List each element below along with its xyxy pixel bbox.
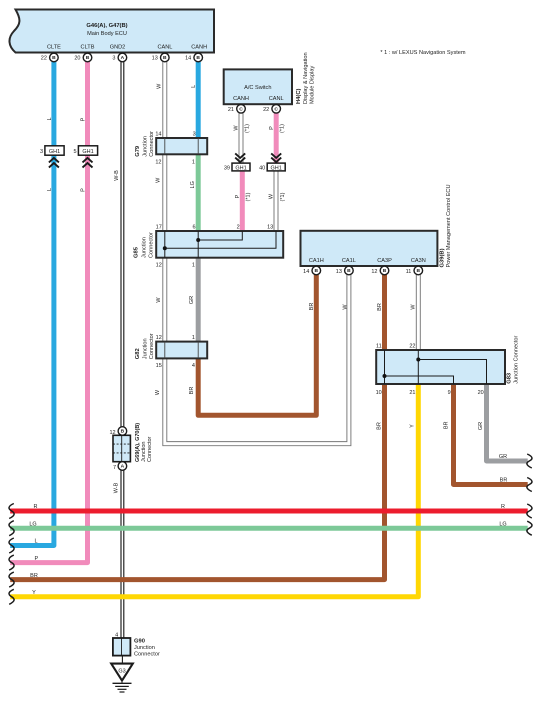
svg-text:22: 22 bbox=[41, 56, 47, 62]
svg-text:B: B bbox=[163, 55, 167, 61]
svg-text:12: 12 bbox=[156, 262, 162, 268]
pin 20 B CLTB bbox=[74, 53, 91, 62]
svg-text:GR: GR bbox=[478, 422, 484, 430]
svg-text:CLTB: CLTB bbox=[81, 45, 95, 51]
svg-text:B: B bbox=[196, 55, 200, 61]
svg-text:G85: G85 bbox=[133, 246, 139, 258]
wire W G79 to G85 bbox=[163, 154, 167, 231]
svg-text:G82: G82 bbox=[135, 348, 141, 359]
shield chevrons below GH1-3 bbox=[49, 158, 59, 168]
svg-text:GR: GR bbox=[189, 296, 195, 304]
wire label L CANH bbox=[191, 85, 197, 88]
break symbols right edge bbox=[527, 454, 532, 535]
svg-text:CANH: CANH bbox=[191, 45, 207, 51]
svg-text:Connector: Connector bbox=[149, 131, 155, 157]
main body ECU G46(A) G47(B) bbox=[9, 10, 214, 53]
wire L CANH blue bbox=[196, 62, 201, 138]
A/C switch box bbox=[224, 69, 292, 104]
wire BR G83 pin9 to right break bbox=[454, 384, 528, 485]
svg-text:L: L bbox=[191, 85, 197, 88]
pin 3 A GND2 bbox=[112, 53, 126, 62]
svg-text:A: A bbox=[121, 55, 125, 61]
svg-text:A/C Switch: A/C Switch bbox=[244, 85, 271, 91]
svg-text:3: 3 bbox=[193, 131, 196, 137]
svg-text:BR: BR bbox=[444, 421, 450, 429]
wire label BR below G83 pin9 bbox=[444, 421, 450, 429]
svg-text:W: W bbox=[156, 83, 162, 89]
svg-text:P: P bbox=[269, 126, 275, 130]
wire Y G83 pin21 + Y bus bbox=[10, 384, 418, 597]
svg-text:Module Display: Module Display bbox=[310, 66, 316, 104]
svg-text:3: 3 bbox=[112, 56, 115, 62]
connector 40 GH1 bbox=[259, 163, 285, 171]
svg-text:BR: BR bbox=[189, 387, 195, 395]
svg-text:7: 7 bbox=[113, 465, 116, 471]
svg-text:CANL: CANL bbox=[269, 96, 284, 102]
svg-text:CANH: CANH bbox=[233, 96, 249, 102]
svg-text:B: B bbox=[383, 268, 387, 274]
wire label BR below G83 pin10 bbox=[377, 422, 383, 430]
wire labels column 2 pink P bbox=[80, 117, 86, 121]
wire label W CA3N bbox=[411, 304, 417, 310]
pin 12 B CA3P bbox=[371, 266, 388, 275]
wire W GH1-40 to G85 pin13 bbox=[274, 171, 278, 231]
svg-text:W-B: W-B bbox=[114, 482, 120, 493]
svg-text:G3: G3 bbox=[118, 668, 125, 674]
shield chevrons above GH1-39 bbox=[235, 153, 245, 162]
wire label BR CA3P bbox=[377, 303, 383, 311]
svg-text:11: 11 bbox=[406, 269, 412, 275]
junction connector G90 bbox=[113, 633, 160, 658]
wire label W G79-G85 bbox=[155, 177, 161, 183]
svg-text:W: W bbox=[155, 177, 161, 183]
svg-text:CA3N: CA3N bbox=[411, 258, 426, 264]
svg-text:22: 22 bbox=[409, 344, 415, 350]
svg-text:L: L bbox=[47, 188, 53, 191]
svg-text:21: 21 bbox=[409, 390, 415, 396]
svg-text:GH1: GH1 bbox=[49, 149, 60, 155]
wire label BR below G82 bbox=[189, 387, 195, 395]
svg-text:14: 14 bbox=[303, 269, 309, 275]
svg-text:GH1: GH1 bbox=[235, 165, 246, 171]
svg-text:R: R bbox=[34, 504, 38, 510]
svg-text:39: 39 bbox=[224, 165, 230, 171]
wire L CLTE blue vertical + L bus bbox=[10, 62, 54, 546]
svg-text:6: 6 bbox=[192, 224, 195, 230]
svg-text:GR: GR bbox=[499, 454, 507, 460]
wire BR CA3P to G83 pin11 bbox=[382, 275, 387, 350]
wire labels column 1 blue L bbox=[47, 117, 53, 120]
svg-text:R: R bbox=[501, 504, 505, 510]
wire BR G83 pin10 + BR bus bbox=[10, 384, 384, 580]
svg-text:Junction: Junction bbox=[142, 237, 148, 258]
svg-text:22: 22 bbox=[263, 107, 269, 113]
wire R bus bbox=[10, 509, 528, 514]
svg-text:Connector: Connector bbox=[149, 333, 155, 359]
svg-text:G90: G90 bbox=[134, 638, 145, 644]
svg-text:13: 13 bbox=[336, 269, 342, 275]
svg-text:W: W bbox=[155, 389, 161, 395]
wire BR G82 pin4 to CA1H bbox=[198, 275, 316, 416]
wire label LG bbox=[190, 181, 196, 188]
svg-text:H4(C): H4(C) bbox=[296, 88, 302, 104]
wire label W below G82 bbox=[155, 389, 161, 395]
pin 21 C A/C CANH bbox=[228, 105, 245, 114]
svg-text:B: B bbox=[417, 268, 421, 274]
connector 3 GH1 on blue bbox=[40, 146, 64, 155]
svg-text:B: B bbox=[86, 55, 90, 61]
ground G3 bbox=[111, 656, 133, 692]
wire label GR below G83 pin20 bbox=[478, 422, 484, 430]
svg-text:(*1): (*1) bbox=[245, 124, 251, 133]
pin 11 B CA3N bbox=[406, 266, 423, 275]
svg-text:Y: Y bbox=[410, 424, 416, 428]
wire W G85 to G82 bbox=[163, 258, 167, 342]
svg-text:CA1H: CA1H bbox=[309, 258, 324, 264]
svg-text:11: 11 bbox=[376, 344, 382, 350]
svg-text:BR: BR bbox=[30, 573, 38, 579]
svg-text:14: 14 bbox=[155, 131, 161, 137]
svg-text:17: 17 bbox=[156, 224, 162, 230]
wire W-B GND2 vertical bbox=[121, 62, 124, 638]
svg-text:1: 1 bbox=[192, 335, 195, 341]
wire label W G85-G82 bbox=[156, 297, 162, 303]
svg-text:G79: G79 bbox=[135, 145, 141, 157]
svg-text:1: 1 bbox=[192, 262, 195, 268]
svg-text:* 1 : w/ LEXUS Navigation Syst: * 1 : w/ LEXUS Navigation System bbox=[380, 50, 466, 56]
pin 22 B CLTE bbox=[41, 53, 58, 62]
svg-text:BR: BR bbox=[500, 478, 508, 484]
svg-text:C: C bbox=[274, 107, 278, 113]
shield chevrons below GH1-5 bbox=[83, 158, 93, 168]
junction connector G82 bbox=[135, 333, 207, 369]
wire P CLTB pink vertical + P bus bbox=[10, 62, 87, 563]
svg-text:9: 9 bbox=[448, 390, 451, 396]
svg-text:G83: G83 bbox=[506, 372, 512, 384]
svg-text:C: C bbox=[239, 107, 243, 113]
svg-text:LG: LG bbox=[190, 181, 196, 188]
break symbols left edge bbox=[9, 504, 14, 605]
svg-text:BR: BR bbox=[377, 303, 383, 311]
svg-text:L: L bbox=[34, 539, 37, 545]
svg-text:20: 20 bbox=[478, 390, 484, 396]
shield chevrons above GH1-40 bbox=[271, 153, 281, 162]
svg-text:12: 12 bbox=[156, 335, 162, 341]
svg-text:20: 20 bbox=[74, 56, 80, 62]
svg-text:W: W bbox=[234, 125, 240, 131]
connector 5 GH1 on pink bbox=[73, 146, 97, 155]
svg-text:GND2: GND2 bbox=[110, 45, 126, 51]
svg-text:BR: BR bbox=[309, 303, 315, 311]
svg-text:P: P bbox=[80, 188, 86, 192]
svg-text:Main Body ECU: Main Body ECU bbox=[87, 31, 127, 37]
svg-text:GH1: GH1 bbox=[82, 149, 93, 155]
wire label BR CA1H bbox=[309, 303, 315, 311]
svg-text:5: 5 bbox=[73, 149, 76, 155]
svg-text:CA1L: CA1L bbox=[342, 258, 356, 264]
svg-text:Connector: Connector bbox=[147, 436, 153, 462]
wire label W CA1L bbox=[343, 304, 349, 310]
pin 14 B CA1H bbox=[303, 266, 320, 275]
svg-text:W: W bbox=[269, 193, 275, 199]
svg-text:W: W bbox=[343, 304, 349, 310]
power management control ECU G39(B) bbox=[301, 184, 453, 267]
svg-text:W-B: W-B bbox=[114, 170, 120, 181]
svg-text:Junction: Junction bbox=[134, 645, 155, 651]
svg-text:Display & Navigation: Display & Navigation bbox=[303, 52, 309, 104]
svg-text:(*1): (*1) bbox=[246, 192, 252, 201]
wire GR G85 to G82 bbox=[196, 258, 201, 342]
svg-text:40: 40 bbox=[259, 165, 265, 171]
svg-text:B: B bbox=[315, 268, 319, 274]
svg-text:LG: LG bbox=[499, 521, 506, 527]
svg-text:Junction: Junction bbox=[143, 338, 149, 359]
svg-text:Connector: Connector bbox=[134, 651, 160, 657]
wire P GH1-39 to G85 pin2 bbox=[240, 171, 245, 231]
H4(C) display and navigation module display label bbox=[296, 52, 315, 104]
svg-text:14: 14 bbox=[185, 56, 191, 62]
wire labels A/C P (*1) bbox=[269, 126, 275, 130]
svg-text:15: 15 bbox=[156, 363, 162, 369]
svg-text:P: P bbox=[34, 556, 38, 562]
svg-text:B: B bbox=[52, 55, 56, 61]
svg-text:CANL: CANL bbox=[157, 45, 172, 51]
wire label GR G85-G82 bbox=[189, 296, 195, 304]
svg-text:P: P bbox=[80, 117, 86, 121]
junction connector G79 bbox=[135, 131, 207, 166]
wire labels P (*1) below GH1-39 bbox=[235, 194, 241, 198]
wire labels W-B bbox=[114, 170, 120, 181]
wire labels A/C W (*1) bbox=[234, 125, 240, 131]
svg-text:W: W bbox=[411, 304, 417, 310]
svg-text:2: 2 bbox=[237, 224, 240, 230]
svg-text:W: W bbox=[156, 297, 162, 303]
junction connector G69(A) G70(B) bbox=[109, 423, 153, 471]
svg-text:Junction: Junction bbox=[143, 136, 149, 157]
svg-text:(*1): (*1) bbox=[280, 124, 286, 133]
svg-text:CLTE: CLTE bbox=[47, 45, 61, 51]
svg-text:B: B bbox=[121, 429, 125, 435]
junction connector G85 bbox=[133, 224, 283, 268]
wire W A/C CANH to GH1-39 bbox=[239, 113, 243, 163]
svg-text:Power Management Control ECU: Power Management Control ECU bbox=[446, 184, 452, 267]
wire labels W (*1) below GH1-40 bbox=[269, 193, 275, 199]
pin 13 B CANL bbox=[152, 53, 169, 62]
svg-text:13: 13 bbox=[152, 56, 158, 62]
connector 39 GH1 bbox=[224, 163, 250, 171]
svg-text:G39(B): G39(B) bbox=[439, 248, 445, 267]
junction connector G83 bbox=[376, 335, 520, 396]
svg-text:Junction: Junction bbox=[141, 442, 147, 463]
svg-text:1: 1 bbox=[192, 159, 195, 165]
wire P A/C CANL to GH1-40 bbox=[274, 113, 279, 163]
pin 13 B CA1L bbox=[336, 266, 353, 275]
svg-text:13: 13 bbox=[267, 224, 273, 230]
svg-text:Junction Connector: Junction Connector bbox=[514, 335, 520, 383]
svg-text:LG: LG bbox=[29, 521, 36, 527]
svg-text:G46(A), G47(B): G46(A), G47(B) bbox=[86, 23, 127, 29]
svg-text:21: 21 bbox=[228, 107, 234, 113]
svg-text:GH1: GH1 bbox=[271, 165, 282, 171]
wire label Y below G83 pin21 bbox=[410, 424, 416, 428]
svg-text:3: 3 bbox=[40, 149, 43, 155]
pin 22 C A/C CANL bbox=[263, 105, 280, 114]
svg-text:10: 10 bbox=[376, 390, 382, 396]
svg-text:Connector: Connector bbox=[148, 232, 154, 258]
svg-text:4: 4 bbox=[192, 363, 195, 369]
svg-text:P: P bbox=[235, 194, 241, 198]
svg-text:(*1): (*1) bbox=[280, 192, 286, 201]
svg-text:CA3P: CA3P bbox=[377, 258, 392, 264]
wire LG G79 to G85 bbox=[196, 154, 201, 231]
wire LG bus bbox=[10, 526, 528, 531]
wire label W CANL bbox=[156, 83, 162, 89]
wire W CA3N to G83 pin22 bbox=[416, 275, 420, 350]
svg-text:B: B bbox=[347, 268, 351, 274]
svg-text:Y: Y bbox=[32, 590, 36, 596]
svg-text:L: L bbox=[47, 117, 53, 120]
wire W CANL thin bbox=[163, 62, 167, 138]
svg-text:BR: BR bbox=[377, 422, 383, 430]
svg-text:12: 12 bbox=[155, 159, 161, 165]
wire W G82 to CA1L routed down-right-up bbox=[163, 275, 351, 446]
pin 14 B CANH bbox=[185, 53, 202, 62]
wire GR G83 pin20 to right break bbox=[487, 384, 528, 461]
svg-text:12: 12 bbox=[371, 269, 377, 275]
svg-text:A: A bbox=[121, 464, 125, 470]
